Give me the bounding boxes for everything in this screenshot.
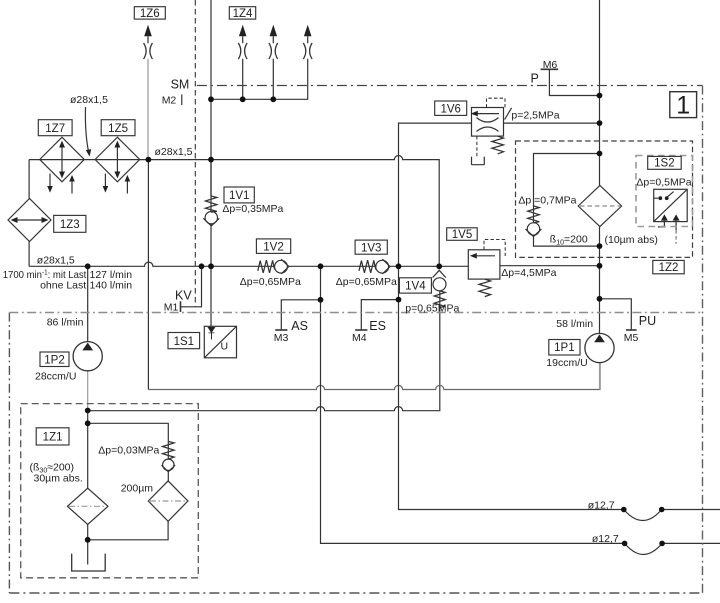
wire tank drop x=148.4 from manifold to suction bus bbox=[147, 160, 149, 390]
svg-text:ø28x1,5: ø28x1,5 bbox=[37, 255, 75, 267]
node M3 test bar bbox=[275, 329, 287, 331]
filter 1Z2 bypass ball bbox=[527, 223, 539, 235]
boundary frame bottom dash-dot bbox=[9, 592, 702, 594]
wire 1Z6 shaft upper bbox=[147, 36, 149, 43]
junction dots 1Z1 bbox=[85, 408, 91, 414]
pump 1P1 circle bbox=[585, 333, 614, 362]
relief valve 1V5 body bbox=[468, 250, 500, 279]
wire suction bus y=410.7 to 1V4 drain with hops bbox=[88, 291, 440, 411]
label box 1P2 bbox=[40, 352, 69, 367]
air filter 1Z5 exhaust arrow bbox=[103, 174, 109, 193]
pressure switch 1S2 contacts bbox=[654, 192, 674, 201]
check valve 1V3 spring bbox=[359, 260, 376, 273]
label arrow o28x1,5 pointer bbox=[85, 107, 91, 157]
svg-text:T: T bbox=[208, 330, 215, 342]
relief valve 1V5 spring bbox=[479, 279, 491, 297]
air filter 1Z5 diamond bbox=[95, 137, 140, 182]
svg-text:U: U bbox=[221, 341, 229, 353]
breather 1Z6 port arcs bbox=[144, 43, 153, 59]
breather 1Z4 port arcs b bbox=[269, 43, 278, 59]
svg-text:SM: SM bbox=[171, 78, 190, 92]
label box 1V6 bbox=[435, 101, 467, 115]
check valve 1V1 seat bbox=[203, 218, 219, 226]
junction dots AS ES bbox=[318, 297, 324, 303]
svg-text:(10µm abs): (10µm abs) bbox=[605, 234, 658, 246]
svg-text:1Z4: 1Z4 bbox=[233, 8, 253, 20]
wire top header to 1Z4 vents y=99.3 bbox=[211, 59, 308, 100]
wire manifold y=159.6 o28x1,5 with hop at x=398.5 and drop to 1V4 bbox=[29, 156, 439, 267]
wire KV branch to M1 bbox=[181, 266, 202, 307]
assembly box 1Z1 dashed bbox=[21, 404, 199, 578]
check valve 1V3 ball bbox=[376, 260, 389, 273]
wire PU branch to M5 bbox=[600, 299, 632, 330]
filter 1Z1 bypass ball bbox=[163, 459, 174, 470]
reducing valve 1V6 adjust slash bbox=[505, 108, 512, 120]
reducing valve 1V6 body bbox=[472, 108, 504, 137]
wire 1V6 outlet to P rail bbox=[504, 122, 600, 124]
label box 1V4 bbox=[399, 278, 431, 293]
check valve 1V1 spring bbox=[205, 160, 217, 213]
wire 1Z4 vent shafts bbox=[243, 36, 308, 99]
node M1 test bar bbox=[180, 301, 182, 312]
air filter 1Z7 internal double arrow bbox=[59, 141, 65, 179]
tank bbox=[72, 554, 106, 571]
svg-text:1V6: 1V6 bbox=[440, 103, 460, 115]
svg-text:ß10=200: ß10=200 bbox=[550, 233, 588, 246]
junction dots hoses bbox=[621, 507, 627, 513]
pressure switch 1S2 port arrows bbox=[661, 214, 680, 220]
boundary frame left dash-dot bbox=[8, 313, 10, 594]
wire 1Z1 suction column bbox=[87, 411, 89, 565]
svg-text:1Z2: 1Z2 bbox=[659, 262, 679, 274]
label box 1V5 bbox=[447, 228, 478, 241]
label box 1P1 bbox=[549, 340, 580, 356]
assembly box 1S2 dashed grey bbox=[636, 156, 693, 227]
filter 1Z1 coarse diamond 200um bbox=[148, 481, 188, 521]
breather 1Z6 arrow bbox=[144, 25, 152, 37]
sensor 1S1 input arrow bbox=[207, 327, 215, 333]
check valve 1V4 spring bbox=[434, 291, 445, 308]
label box 1S1 bbox=[168, 333, 200, 349]
svg-text:ø28x1,5: ø28x1,5 bbox=[70, 94, 108, 106]
svg-text:30µm abs.: 30µm abs. bbox=[34, 472, 83, 484]
svg-text:1P1: 1P1 bbox=[554, 342, 574, 354]
svg-text:Δp=0,5MPa: Δp=0,5MPa bbox=[636, 177, 691, 189]
breather 1Z4 arrow b bbox=[270, 25, 278, 37]
svg-text:Δp=0,65MPa: Δp=0,65MPa bbox=[336, 276, 397, 288]
wire 1P2 supply drop x=87.7 bbox=[87, 266, 89, 341]
label box 1V3 bbox=[355, 240, 387, 254]
filter 1Z1 bypass spring bbox=[163, 441, 175, 459]
label box 1Z5 bbox=[101, 120, 135, 136]
relief valve 1V5 pilot dashed bbox=[484, 240, 505, 257]
svg-text:1V1: 1V1 bbox=[229, 190, 249, 202]
wire M6 branch bbox=[549, 69, 599, 95]
wire 1P2 suction grey bbox=[87, 371, 89, 411]
wire working line x=320.5 to lower hose y=543.4 bbox=[321, 266, 720, 543]
svg-text:M6: M6 bbox=[543, 59, 558, 71]
boundary mid dash-dot y=312.5 bbox=[9, 312, 702, 314]
label box 1S2 bbox=[648, 156, 682, 169]
svg-text:M4: M4 bbox=[352, 332, 367, 344]
junction dots P rail bbox=[597, 93, 603, 99]
reducing valve 1V6 drain dashed bbox=[476, 136, 478, 157]
wire working line x=398.5 from 1V6 to upper hose y=509.5 bbox=[399, 123, 720, 509]
air filter 1Z7 diamond bbox=[40, 137, 85, 182]
pressure switch 1S2 port stems bbox=[658, 221, 676, 230]
label box 1V2 bbox=[256, 239, 290, 254]
label box 1Z1 bbox=[36, 428, 69, 445]
label box 1Z7 bbox=[38, 120, 72, 136]
svg-text:P: P bbox=[531, 71, 539, 85]
air filter 1Z3 diamond bbox=[8, 199, 51, 242]
svg-text:p=2,5MPa: p=2,5MPa bbox=[511, 109, 559, 121]
svg-text:AS: AS bbox=[291, 319, 308, 333]
air filter 1Z5 intake arrow bbox=[125, 175, 131, 194]
wire 1Z1 bypass lower link bbox=[88, 472, 169, 540]
filter 1Z2 bypass spring bbox=[528, 206, 540, 223]
svg-text:19ccm/U: 19ccm/U bbox=[546, 357, 587, 369]
svg-text:1Z1: 1Z1 bbox=[43, 432, 63, 444]
svg-text:1P2: 1P2 bbox=[44, 354, 64, 366]
node M4 test bar bbox=[355, 329, 367, 331]
reducing valve 1V6 pilot dashed bbox=[487, 98, 506, 107]
wire tank bus y=389.5 to 1P1 suction with hops bbox=[148, 362, 600, 389]
relief valve 1V5 internal arrow bbox=[470, 253, 495, 259]
wire pressure rail P x=599.5 bbox=[599, 0, 601, 334]
pump 1P1 flow triangle bbox=[594, 334, 605, 342]
svg-text:Δp=0,65MPa: Δp=0,65MPa bbox=[240, 276, 301, 288]
svg-text:140 l/min: 140 l/min bbox=[90, 279, 133, 291]
breather 1Z4 port arcs c bbox=[303, 43, 312, 59]
wire 1Z2 bypass loop bbox=[534, 154, 600, 247]
wire M2 measuring dashed line x=195.3 bbox=[194, 0, 196, 307]
reducing valve 1V6 throttle arcs bbox=[477, 118, 499, 132]
filter 1Z1 fine mesh bbox=[69, 505, 107, 507]
check valve 1V2 ball bbox=[275, 260, 288, 273]
label box 1Z2 bbox=[653, 260, 684, 273]
svg-text:1Z6: 1Z6 bbox=[140, 8, 160, 20]
pump 1P2 flow triangle bbox=[82, 343, 93, 351]
svg-text:58 l/min: 58 l/min bbox=[556, 318, 593, 330]
check valve 1V4 ball bbox=[433, 278, 446, 291]
label box 1Z4 bbox=[229, 7, 255, 19]
svg-text:ES: ES bbox=[369, 319, 386, 333]
filter 1Z2 mesh dashed bbox=[580, 205, 620, 207]
reducing valve 1V6 spring bbox=[492, 136, 504, 154]
label box 1 system bbox=[670, 92, 697, 118]
filter 1Z2 bypass seat bbox=[526, 229, 542, 236]
pressure switch 1S2 body bbox=[654, 189, 688, 221]
check valve 1V2 seat bbox=[281, 259, 289, 274]
wire 1P1 suction grey stub bbox=[599, 362, 601, 389]
filter 1Z1 bypass seat bbox=[162, 465, 176, 472]
svg-text:86 l/min: 86 l/min bbox=[47, 316, 84, 328]
pressure switch 1S2 sense dashed bbox=[675, 230, 677, 244]
svg-text:1Z3: 1Z3 bbox=[60, 219, 80, 231]
breather 1Z4 arrow c bbox=[304, 25, 312, 37]
svg-text:M2: M2 bbox=[162, 95, 177, 107]
svg-text:M5: M5 bbox=[624, 332, 639, 344]
label box 1V1 bbox=[224, 187, 254, 203]
reducing valve 1V6 internal arrow bbox=[471, 111, 499, 117]
filter 1Z2 element diamond bbox=[578, 185, 621, 226]
svg-text:ø12,7: ø12,7 bbox=[592, 533, 619, 545]
filter 1Z1 fine diamond 30um bbox=[67, 488, 108, 524]
label box 1Z6 bbox=[134, 7, 165, 19]
reducing valve 1V6 drain port bbox=[472, 157, 485, 165]
wire AS branch to M3 bbox=[281, 300, 320, 330]
breather 1Z4 port arcs a bbox=[238, 43, 247, 59]
svg-text:ø12,7: ø12,7 bbox=[588, 499, 615, 511]
hose coupling upper o12,7 bbox=[624, 510, 662, 521]
svg-text:1Z5: 1Z5 bbox=[108, 123, 128, 135]
air filter 1Z7 intake arrow bbox=[69, 175, 75, 194]
node M6 test bar bbox=[541, 68, 559, 70]
value flow row1 bbox=[3, 269, 87, 281]
svg-text:ø28x1,5: ø28x1,5 bbox=[155, 146, 193, 158]
svg-text:28ccm/U: 28ccm/U bbox=[35, 370, 76, 382]
node M2 tick bbox=[181, 94, 183, 105]
wire main pressure rail y=266.3 with hop at x=148.6 bbox=[29, 262, 599, 266]
svg-text:M1: M1 bbox=[164, 301, 179, 313]
svg-text:ohne Last: ohne Last bbox=[40, 279, 86, 291]
svg-text:Δp =0,7MPa: Δp =0,7MPa bbox=[518, 194, 576, 206]
sensor 1S1 diagonal bbox=[204, 326, 236, 358]
svg-text:p=0,65MPa: p=0,65MPa bbox=[405, 303, 459, 315]
svg-text:200µm: 200µm bbox=[121, 483, 154, 495]
svg-text:1Z7: 1Z7 bbox=[45, 123, 65, 135]
svg-text:1: 1 bbox=[676, 92, 690, 120]
air filter 1Z5 internal double arrow bbox=[114, 141, 120, 179]
svg-text:1V4: 1V4 bbox=[405, 281, 426, 293]
svg-text:M3: M3 bbox=[274, 332, 289, 344]
air filter 1Z7 exhaust arrow bbox=[47, 174, 53, 193]
svg-text:Δp=0,35MPa: Δp=0,35MPa bbox=[222, 203, 283, 215]
wire main line A vertical x=211 bbox=[210, 0, 212, 328]
check valve 1V4 seat bbox=[433, 270, 446, 277]
svg-text:1S1: 1S1 bbox=[174, 336, 194, 348]
assembly box 1Z2 dashed bbox=[516, 141, 693, 257]
check valve 1V2 spring bbox=[258, 260, 275, 273]
svg-text:Δp=0,03MPa: Δp=0,03MPa bbox=[98, 444, 159, 456]
svg-text:1V3: 1V3 bbox=[361, 242, 381, 254]
wire ES branch to M4 bbox=[361, 300, 398, 330]
svg-text:Δp=4,5MPa: Δp=4,5MPa bbox=[501, 267, 556, 279]
wire 1Z3 vertical link bbox=[28, 160, 30, 267]
svg-text:1V5: 1V5 bbox=[452, 229, 472, 241]
svg-text:PU: PU bbox=[639, 314, 656, 328]
check valve 1V3 seat bbox=[382, 259, 390, 274]
junction dots top header bbox=[208, 96, 214, 102]
boundary frame right dash-dot bbox=[702, 86, 704, 594]
wire 1Z6 shaft lower grey bbox=[147, 59, 149, 160]
svg-text:1S2: 1S2 bbox=[654, 158, 674, 170]
filter 1Z1 coarse mesh bbox=[150, 500, 186, 502]
sensor 1S1 body bbox=[204, 326, 236, 358]
junction dots rail y266 bbox=[85, 263, 91, 269]
breather 1Z4 arrow a bbox=[239, 25, 247, 37]
svg-text:1V2: 1V2 bbox=[263, 241, 283, 253]
air filter 1Z3 internal double arrow bbox=[11, 217, 49, 223]
pump 1P2 circle bbox=[73, 342, 102, 371]
check valve 1V1 ball bbox=[205, 212, 217, 224]
junction dots manifold y159 bbox=[146, 157, 152, 163]
label box 1Z3 bbox=[54, 215, 86, 232]
boundary SM dash-dot top bbox=[197, 85, 703, 87]
pressure switch 1S2 diagonal bbox=[654, 189, 688, 221]
node M5 test bar bbox=[626, 329, 637, 331]
hose coupling lower o12,7 bbox=[625, 543, 663, 554]
wire 1Z1 bypass top y=423.3 bbox=[88, 423, 169, 459]
